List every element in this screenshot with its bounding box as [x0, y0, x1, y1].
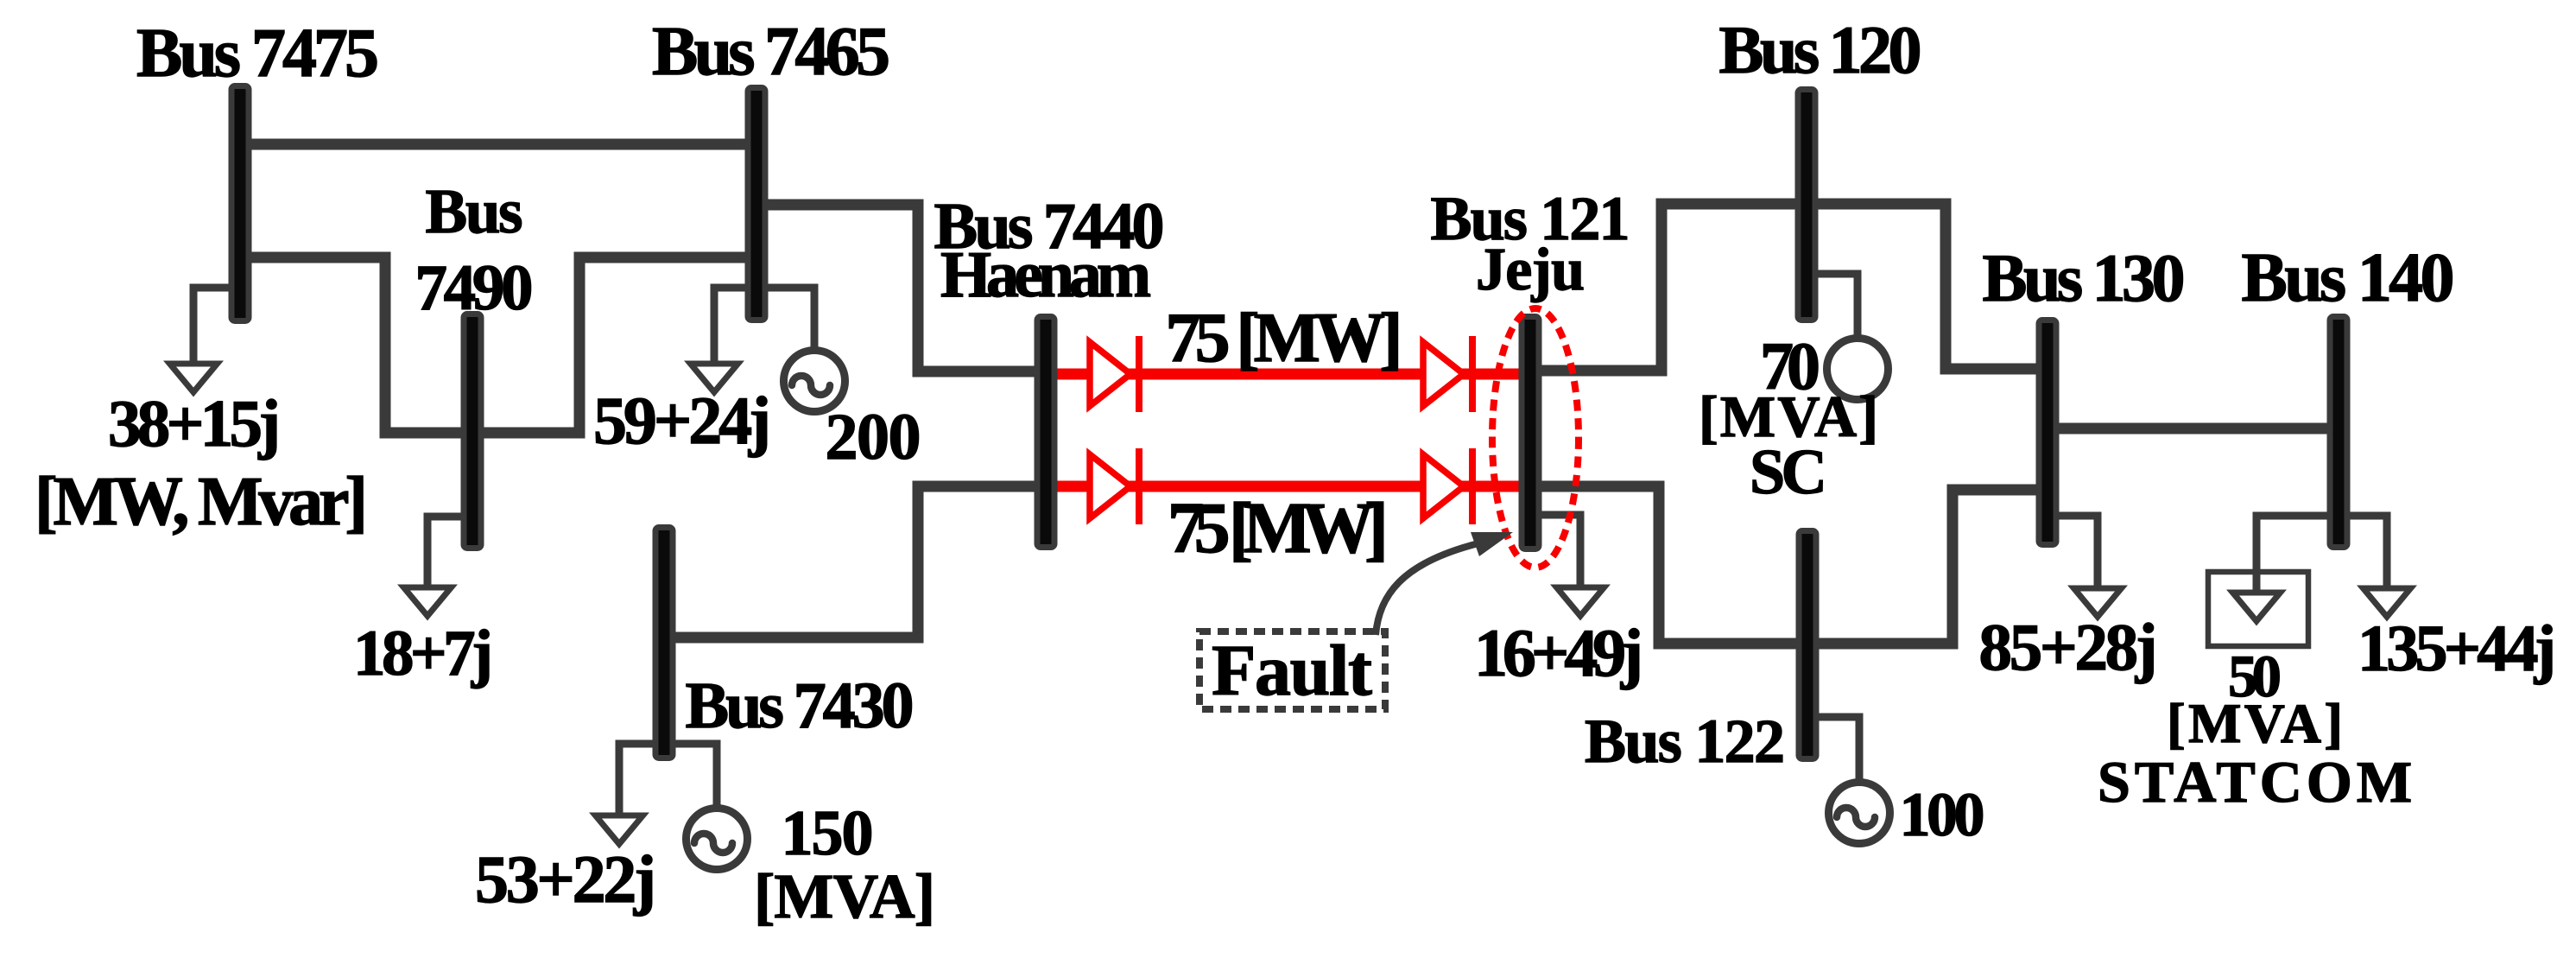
diode D3 triangle: [1090, 454, 1130, 518]
load and generator tap at Bus 7430: [619, 744, 717, 818]
wire Bus121-Bus122-Bus130: [1530, 486, 2048, 644]
load and generator tap at Bus 7465: [714, 288, 814, 366]
bus bar Bus 140: [2330, 317, 2347, 548]
svg-text:Jeju: Jeju: [1476, 237, 1585, 303]
generator tap at Bus 122: [1807, 717, 1859, 783]
diode D2 cathode: [1469, 336, 1476, 412]
STATCOM box: [2208, 572, 2308, 646]
synchronous condenser SC circle: [1827, 339, 1889, 400]
bus bar Bus 121 Jeju: [1522, 317, 1539, 549]
load arrow 59+24j: [691, 364, 738, 392]
fault location ellipse around Bus 121: [1492, 308, 1579, 568]
svg-text:38+15j: 38+15j: [108, 386, 281, 460]
bus bar Bus 7475: [231, 86, 249, 321]
load tap at Bus 7475: [193, 288, 240, 366]
load arrow 85+28j: [2074, 588, 2122, 617]
load tap at Bus 7490: [427, 517, 472, 590]
generator G150 circle: [687, 809, 748, 870]
bus bar Bus 122: [1799, 531, 1816, 759]
svg-text:Bus: Bus: [426, 176, 523, 246]
fault arrow head: [1471, 532, 1513, 556]
svg-text:Bus 7430: Bus 7430: [686, 669, 915, 742]
bus bar Bus 7430: [655, 528, 673, 758]
bus bar Bus 7465: [748, 88, 765, 320]
diode D2 triangle: [1423, 342, 1464, 406]
load arrow 38+15j: [170, 364, 218, 392]
svg-text:SC: SC: [1750, 437, 1827, 508]
wire Bus130-Bus140: [2048, 423, 2339, 435]
svg-text:18+7j: 18+7j: [353, 618, 493, 689]
bus bar Bus 130: [2039, 320, 2056, 545]
load tap at Bus 140: [2339, 516, 2387, 591]
svg-text:[MW, Mvar]: [MW, Mvar]: [35, 464, 368, 540]
svg-text:Bus 130: Bus 130: [1983, 240, 2186, 315]
svg-text:STATCOM: STATCOM: [2098, 749, 2412, 815]
svg-text:Bus 120: Bus 120: [1719, 12, 1922, 87]
STATCOM arrow: [2233, 593, 2281, 621]
diode D1 triangle: [1090, 342, 1130, 406]
svg-text:Bus 7465: Bus 7465: [652, 14, 890, 90]
wire Bus7465-Bus7440: [756, 205, 1046, 371]
fault arrow curve: [1376, 543, 1478, 635]
bus bar Bus 7490: [464, 314, 481, 549]
svg-text:[MVA]: [MVA]: [2167, 693, 2343, 755]
wire Bus7475-Bus7465: [240, 139, 756, 150]
svg-text:16+49j: 16+49j: [1474, 615, 1643, 690]
svg-text:59+24j: 59+24j: [593, 383, 771, 458]
diode D4 cathode: [1469, 448, 1476, 524]
svg-text:100: 100: [1900, 780, 1985, 849]
fault box: [1199, 631, 1385, 709]
svg-text:Bus 140: Bus 140: [2242, 240, 2455, 316]
load tap at Bus 130: [2048, 516, 2098, 591]
svg-text:85+28j: 85+28j: [1979, 610, 2158, 684]
synchronous condenser tap at Bus 120: [1807, 274, 1858, 339]
generator G100 circle: [1829, 783, 1890, 844]
wire Bus7430-Bus7440: [664, 486, 1046, 638]
diode D3 cathode: [1136, 448, 1142, 524]
generator G100 sine: [1837, 808, 1875, 827]
svg-text:Haenam: Haenam: [940, 238, 1151, 311]
svg-text:53+22j: 53+22j: [475, 841, 656, 917]
load arrow 135+44j: [2364, 588, 2411, 617]
generator G200 sine: [792, 376, 830, 395]
svg-text:135+44j: 135+44j: [2358, 612, 2556, 685]
load tap at Bus 121 Jeju: [1530, 515, 1580, 590]
svg-text:200: 200: [826, 401, 921, 473]
svg-text:[MVA]: [MVA]: [754, 861, 935, 931]
load arrow 16+49j: [1557, 587, 1604, 616]
HVDC line 2 (75 MW): [1054, 481, 1530, 492]
svg-text:Fault: Fault: [1212, 631, 1372, 711]
generator G150 sine: [694, 834, 732, 853]
svg-text:7490: 7490: [415, 252, 534, 324]
svg-text:150: 150: [782, 798, 874, 869]
diode D1 cathode: [1136, 336, 1142, 412]
svg-text:Bus 122: Bus 122: [1585, 707, 1785, 776]
bus bar Bus 120: [1798, 90, 1815, 320]
svg-text:75 [MW]: 75 [MW]: [1168, 488, 1389, 568]
load arrow 53+22j: [596, 815, 643, 844]
STATCOM tap at Bus 140: [2256, 516, 2339, 595]
diode D4 triangle: [1423, 454, 1464, 518]
load arrow 18+7j: [404, 587, 452, 616]
HVDC line 1 (75 MW): [1054, 369, 1530, 380]
bus bar Bus 7440 Haenam: [1037, 317, 1054, 548]
svg-text:75 [MW]: 75 [MW]: [1166, 298, 1403, 377]
generator G200 circle: [784, 351, 845, 412]
svg-text:Bus 7475: Bus 7475: [136, 16, 379, 92]
wire Bus7475-Bus7490-Bus7465: [240, 257, 756, 433]
wire Bus121-Bus120-Bus130: [1530, 204, 2048, 371]
